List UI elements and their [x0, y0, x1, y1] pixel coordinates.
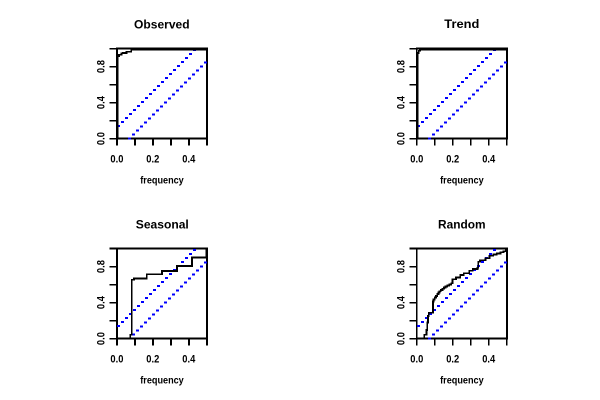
- svg-text:0.2: 0.2: [146, 153, 159, 165]
- svg-text:0.2: 0.2: [146, 353, 159, 365]
- svg-text:Random: Random: [438, 218, 486, 232]
- panel 1 upper confidence band (blue dashed): [117, 49, 196, 127]
- svg-text:0.4: 0.4: [482, 153, 496, 165]
- svg-text:0.0: 0.0: [95, 332, 107, 345]
- panel 1 x ticks: [116, 140, 208, 146]
- panel 1 cumulative periodogram curve: [118, 50, 207, 139]
- svg-text:0.0: 0.0: [410, 353, 423, 365]
- svg-text:0.4: 0.4: [95, 95, 107, 109]
- panel 2 box: [416, 48, 508, 140]
- panel 4 upper confidence band (blue dashed): [417, 249, 496, 327]
- svg-text:0.8: 0.8: [95, 60, 107, 73]
- panel 3 box: [116, 248, 208, 340]
- svg-text:0.0: 0.0: [110, 153, 123, 165]
- svg-text:0.2: 0.2: [446, 153, 459, 165]
- svg-text:0.4: 0.4: [482, 353, 496, 365]
- panel 2 x ticks: [416, 140, 508, 146]
- panel 2 lower confidence band (blue dashed): [428, 61, 507, 139]
- svg-text:frequency: frequency: [440, 376, 484, 387]
- svg-text:frequency: frequency: [140, 176, 184, 187]
- svg-text:0.2: 0.2: [446, 353, 459, 365]
- panel 3 cumulative periodogram curve: [118, 249, 207, 338]
- panel 1 lower confidence band (blue dashed): [128, 61, 207, 139]
- panel 4 lower confidence band (blue dashed): [428, 261, 507, 339]
- svg-text:0.0: 0.0: [395, 132, 407, 145]
- panel 4 box: [416, 248, 508, 340]
- svg-text:0.0: 0.0: [395, 332, 407, 345]
- svg-text:0.0: 0.0: [95, 132, 107, 145]
- svg-text:0.4: 0.4: [95, 295, 107, 309]
- panel 2 upper confidence band (blue dashed): [417, 49, 496, 127]
- svg-text:Trend: Trend: [444, 17, 479, 31]
- panel 4 y ticks: [410, 248, 416, 340]
- panel 1 y ticks: [110, 48, 116, 140]
- svg-text:0.0: 0.0: [410, 153, 423, 165]
- panel 3 upper confidence band (blue dashed): [117, 249, 196, 327]
- svg-text:0.8: 0.8: [395, 260, 407, 273]
- panel 3 x ticks: [116, 340, 208, 346]
- svg-text:frequency: frequency: [140, 376, 184, 387]
- svg-text:0.4: 0.4: [395, 295, 407, 309]
- svg-text:0.4: 0.4: [395, 95, 407, 109]
- panel 3 lower confidence band (blue dashed): [128, 261, 207, 339]
- svg-text:Seasonal: Seasonal: [136, 218, 189, 232]
- panel 2 y ticks: [410, 48, 416, 140]
- panel 3 y ticks: [110, 248, 116, 340]
- panel 4 x ticks: [416, 340, 508, 346]
- svg-text:0.4: 0.4: [182, 353, 196, 365]
- panel 1 box: [116, 48, 208, 140]
- svg-text:0.4: 0.4: [182, 153, 196, 165]
- svg-text:Observed: Observed: [134, 18, 190, 32]
- panel 4 cumulative periodogram curve: [418, 249, 507, 339]
- svg-text:0.0: 0.0: [110, 353, 123, 365]
- panel 2 cumulative periodogram curve: [418, 50, 507, 139]
- svg-text:frequency: frequency: [440, 176, 484, 187]
- svg-text:0.8: 0.8: [95, 260, 107, 273]
- svg-text:0.8: 0.8: [395, 60, 407, 73]
